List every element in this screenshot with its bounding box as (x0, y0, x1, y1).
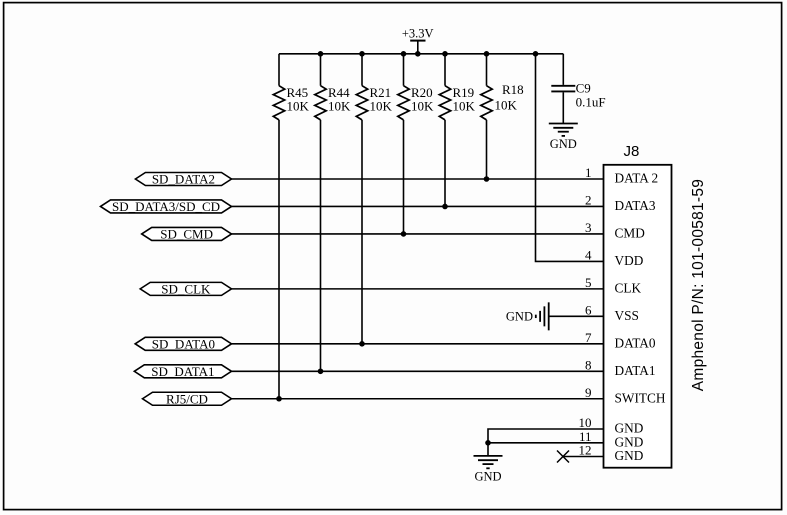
wire net SD_CMD to pin 3 (232, 233, 604, 235)
net flag RJ5/CD (143, 391, 232, 406)
pin 4 label VDD (615, 253, 644, 268)
wire VDD drop to pin 4 (536, 54, 604, 262)
pin 5 number (585, 275, 592, 290)
pin 7 label DATA0 (615, 335, 656, 350)
wire R19 top to rail (444, 54, 446, 86)
pin 8 number (585, 357, 592, 372)
svg-text:DATA1: DATA1 (615, 363, 656, 378)
pin 5 label CLK (615, 280, 642, 295)
wire net SD_DATA3/SD_CD to pin 2 (232, 205, 604, 207)
pin 10 label GND (615, 421, 644, 436)
junction pin 7 / R21 (359, 341, 365, 347)
svg-text:GND: GND (474, 470, 501, 484)
svg-text:7: 7 (585, 330, 592, 345)
svg-text:R18: R18 (502, 82, 524, 97)
net flag SD_DATA1 (134, 364, 231, 379)
svg-text:SD_DATA1: SD_DATA1 (151, 364, 214, 379)
wire R19 bottom to pin 2 net (444, 120, 446, 207)
resistor R20 (398, 85, 434, 120)
svg-text:SD_DATA0: SD_DATA0 (152, 336, 215, 351)
wire R45 top to rail (278, 54, 280, 86)
svg-text:VDD: VDD (615, 253, 644, 268)
svg-text:CLK: CLK (615, 280, 642, 295)
junction rail / R21 (359, 51, 365, 57)
resistor R19 (439, 85, 475, 120)
junction pin 9 / R45 (276, 396, 282, 402)
svg-text:8: 8 (585, 357, 592, 372)
svg-text:3: 3 (585, 220, 592, 235)
connector J8 box (604, 143, 672, 468)
net flag SD_CMD (142, 226, 232, 241)
svg-text:4: 4 (585, 247, 592, 262)
ground GND below C9 (549, 124, 578, 152)
resistor R45 (273, 85, 309, 120)
pin 1 number (585, 165, 592, 180)
wire net SD_CLK to pin 5 (232, 288, 604, 290)
svg-text:10K: 10K (495, 98, 518, 113)
svg-text:SWITCH: SWITCH (615, 390, 666, 405)
pin 3 label CMD (615, 226, 646, 241)
power symbol +3.3V (402, 26, 434, 53)
junction pin 2 / R19 (442, 204, 448, 210)
wire R18 bottom to pin 1 net (486, 120, 488, 179)
wire net SD_DATA2 to pin 1 (232, 178, 604, 180)
svg-text:RJ5/CD: RJ5/CD (166, 391, 208, 406)
pin 7 number (585, 330, 592, 345)
junction rail / VDD drop (533, 51, 539, 57)
svg-text:GND: GND (615, 421, 644, 436)
svg-text:GND: GND (550, 137, 577, 151)
net flag SD_DATA0 (135, 336, 231, 351)
pin 9 label SWITCH (615, 390, 666, 405)
svg-text:GND: GND (615, 448, 644, 463)
wire net RJ5/CD to pin 9 (232, 398, 604, 400)
junction rail / R44 (318, 51, 324, 57)
pin 10 number (579, 415, 592, 430)
pin 8 label DATA1 (615, 363, 656, 378)
wire R21 bottom to pin 7 net (361, 120, 363, 344)
pin 4 number (585, 247, 592, 262)
wire R44 top to rail (320, 54, 322, 86)
svg-text:DATA3: DATA3 (615, 198, 656, 213)
net flag SD_CLK (140, 281, 231, 296)
junction rail / R20 (401, 51, 407, 57)
pin 2 number (585, 192, 592, 207)
svg-text:GND: GND (506, 310, 533, 324)
junction pin 8 / R44 (318, 368, 324, 374)
net flag SD_DATA3/SD_CD (101, 199, 232, 214)
svg-text:DATA 2: DATA 2 (615, 171, 659, 186)
junction rail / +3.3V stem (415, 51, 421, 57)
ground GND bottom (474, 456, 503, 484)
pin 2 label DATA3 (615, 198, 656, 213)
wire R45 bottom to pin 9 net (278, 120, 280, 399)
svg-text:1: 1 (585, 165, 592, 180)
wire R20 bottom to pin 3 net (403, 120, 405, 234)
ground GND at pin 6 (rotated) (506, 302, 549, 330)
wire R21 top to rail (361, 54, 363, 86)
svg-text:SD_CMD: SD_CMD (160, 226, 213, 241)
pin 6 label VSS (615, 308, 639, 323)
net flag SD_DATA2 (135, 172, 231, 187)
pin 6 number (585, 302, 592, 317)
svg-text:2: 2 (585, 192, 592, 207)
svg-text:10: 10 (579, 415, 592, 430)
svg-text:SD_DATA2: SD_DATA2 (152, 172, 215, 187)
svg-text:12: 12 (579, 443, 592, 458)
resistor R21 (356, 85, 392, 120)
junction pin 11 / ground drop (485, 440, 491, 446)
pin 3 number (585, 220, 592, 235)
junction rail / R19 (442, 51, 448, 57)
svg-text:10K: 10K (287, 98, 310, 113)
svg-text:SD_DATA3/SD_CD: SD_DATA3/SD_CD (112, 199, 220, 214)
connector J8 part number (690, 179, 707, 391)
capacitor C9 (551, 54, 605, 124)
svg-text:J8: J8 (624, 143, 640, 160)
pin 12 number (579, 443, 592, 458)
wire R44 bottom to pin 8 net (320, 120, 322, 371)
no-connect X on pin 12 (557, 451, 569, 463)
wire pin 11 GND (488, 442, 604, 444)
svg-text:10K: 10K (453, 98, 476, 113)
svg-text:CMD: CMD (615, 226, 646, 241)
svg-text:C9: C9 (576, 81, 591, 96)
svg-text:6: 6 (585, 302, 592, 317)
wire net SD_DATA1 to pin 8 (232, 370, 604, 372)
svg-text:10K: 10K (328, 98, 351, 113)
resistor R44 (315, 85, 351, 120)
svg-text:5: 5 (585, 275, 592, 290)
pin 11 number (579, 429, 592, 444)
wire +3.3V rail (279, 53, 563, 55)
junction pin 1 / R18 (484, 176, 490, 182)
svg-text:10K: 10K (411, 98, 434, 113)
resistor R18 (481, 82, 524, 120)
wire net SD_DATA0 to pin 7 (232, 343, 604, 345)
wire pin 12 GND (563, 456, 604, 458)
svg-text:+3.3V: +3.3V (402, 26, 434, 40)
junction rail / R18 (484, 51, 490, 57)
pin 12 label GND (615, 448, 644, 463)
wire pin 10 GND (488, 429, 604, 456)
svg-text:0.1uF: 0.1uF (576, 95, 606, 110)
svg-text:VSS: VSS (615, 308, 639, 323)
wire R20 top to rail (403, 54, 405, 86)
junction pin 3 / R20 (401, 231, 407, 237)
pin 11 label GND (615, 434, 644, 449)
wire pin 6 VSS to ground (549, 315, 604, 317)
svg-text:Amphenol P/N: 101-00581-59: Amphenol P/N: 101-00581-59 (690, 179, 707, 391)
svg-text:9: 9 (585, 385, 592, 400)
wire R18 top to rail (486, 54, 488, 86)
svg-text:DATA0: DATA0 (615, 335, 656, 350)
pin 9 number (585, 385, 592, 400)
pin 1 label DATA 2 (615, 171, 659, 186)
svg-text:10K: 10K (370, 98, 393, 113)
svg-text:SD_CLK: SD_CLK (161, 281, 211, 296)
